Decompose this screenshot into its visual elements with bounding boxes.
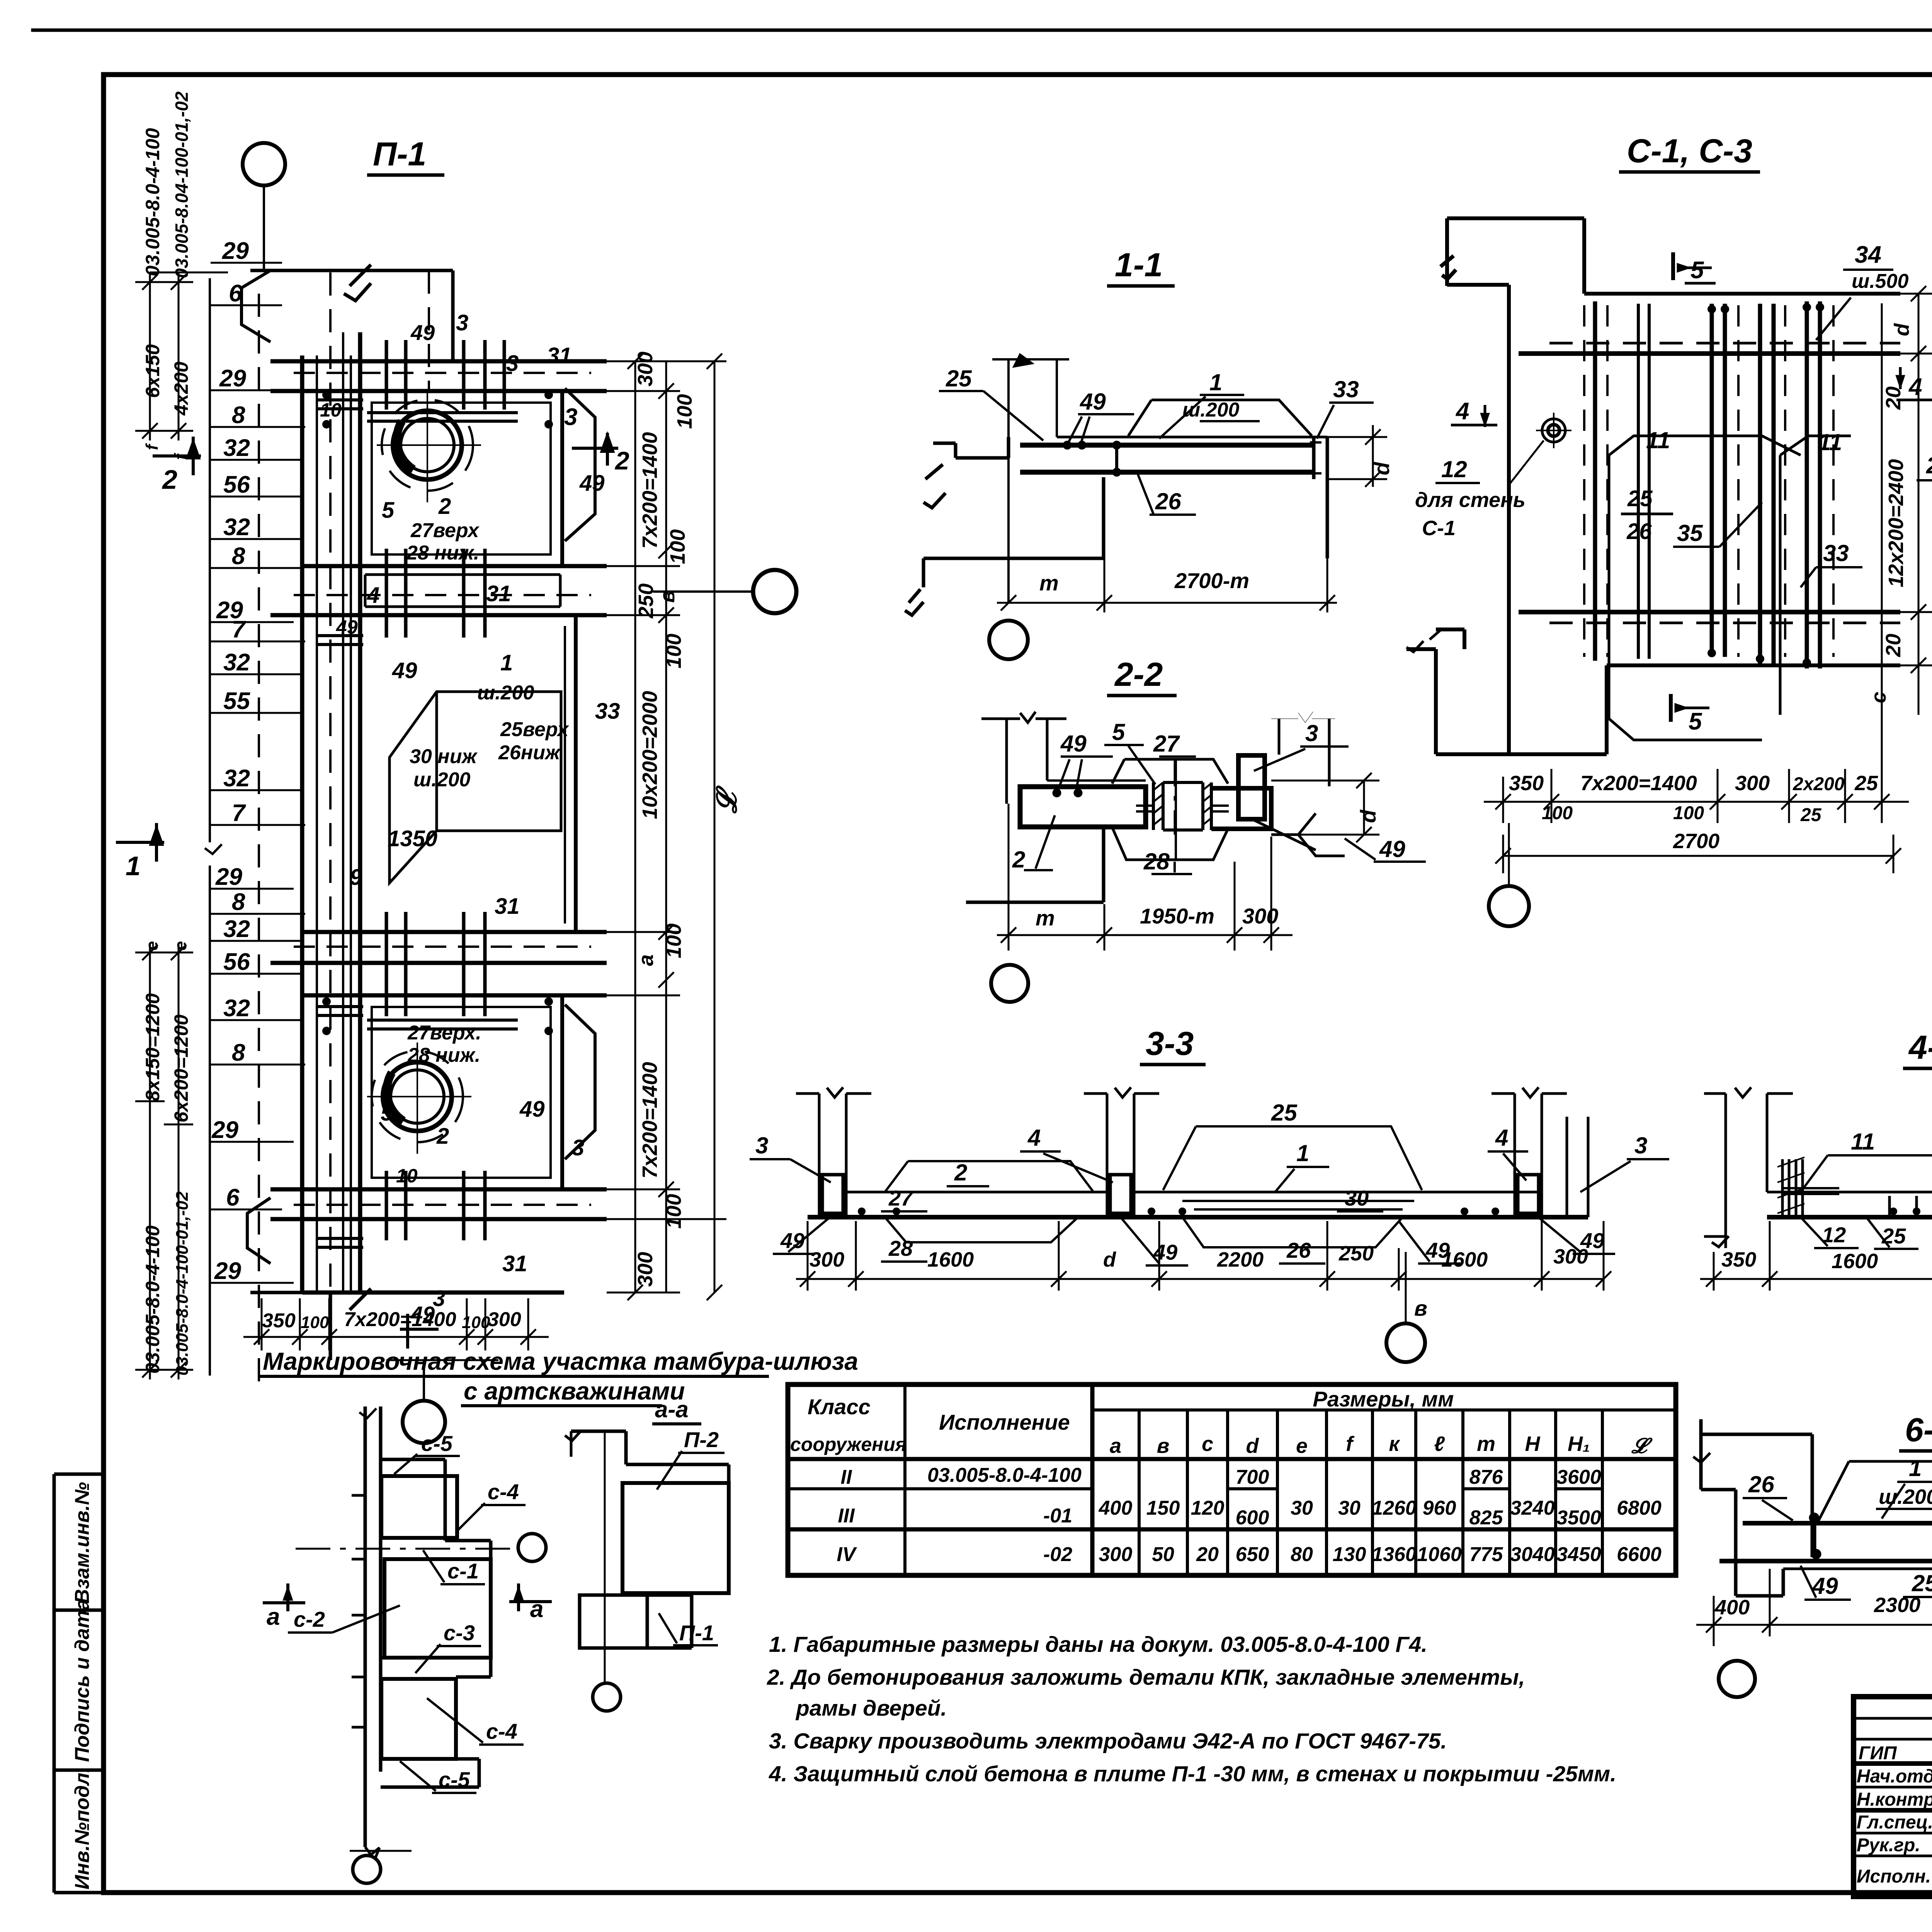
- svg-text:е: е: [1296, 1434, 1308, 1458]
- svg-text:27верх.: 27верх.: [407, 1022, 481, 1044]
- svg-text:e: e: [143, 941, 162, 951]
- svg-text:03.005-8.0-4-100: 03.005-8.0-4-100: [927, 1464, 1082, 1486]
- trapezoid 2: [885, 1161, 1094, 1192]
- svg-text:55: 55: [223, 688, 250, 714]
- bottom dim chain: [796, 1221, 1611, 1291]
- left rotated doc ladder bottom: [135, 943, 193, 1379]
- svg-text:32: 32: [223, 649, 250, 676]
- svg-text:1360: 1360: [1372, 1543, 1417, 1566]
- svg-text:100: 100: [662, 923, 685, 958]
- left wall outline: [1693, 1419, 1812, 1596]
- slab band bottom: [270, 1189, 607, 1293]
- svg-text:35: 35: [1677, 520, 1703, 546]
- svg-text:3: 3: [1305, 720, 1318, 746]
- svg-text:Н.контр: Н.контр: [1857, 1789, 1932, 1810]
- svg-text:а-а: а-а: [655, 1396, 689, 1422]
- svg-text:300: 300: [1735, 772, 1770, 795]
- svg-text:2300: 2300: [1874, 1594, 1920, 1617]
- bottom dim chain: [1484, 769, 1909, 873]
- svg-text:49: 49: [410, 320, 435, 345]
- a-a markers: [263, 1583, 305, 1611]
- svg-text:300: 300: [634, 352, 657, 386]
- svg-text:26: 26: [1748, 1471, 1774, 1497]
- section marker 2 up: [153, 437, 201, 475]
- svg-text:2х200: 2х200: [1793, 774, 1845, 794]
- svg-text:6800: 6800: [1617, 1497, 1662, 1519]
- svg-text:32: 32: [223, 765, 250, 792]
- svg-text:1. Габаритные размеры даны на: 1. Габаритные размеры даны на докум. 03.…: [769, 1632, 1427, 1657]
- svg-text:32: 32: [223, 435, 250, 461]
- slab plate 1 trapezoid in room2: [389, 692, 561, 883]
- labels: [755, 1100, 1647, 1264]
- wall below: [966, 829, 1104, 902]
- svg-text:c: c: [1867, 692, 1890, 703]
- svg-text:IV: IV: [837, 1543, 857, 1566]
- svg-text:650: 650: [1236, 1543, 1269, 1566]
- wall outline bottom-left step: [1406, 629, 1900, 754]
- right dimension labels (rotated): [634, 352, 742, 1287]
- svg-text:Рук.гр.: Рук.гр.: [1857, 1835, 1920, 1855]
- ticks on wall: [352, 1495, 365, 1727]
- node circle below: [1386, 1252, 1425, 1362]
- П-1 lower box: [580, 1593, 692, 1648]
- svg-text:100: 100: [666, 529, 689, 564]
- svg-text:3240: 3240: [1510, 1497, 1555, 1519]
- svg-text:e: e: [171, 941, 190, 951]
- svg-text:а: а: [267, 1604, 280, 1630]
- svg-text:20: 20: [1196, 1543, 1219, 1566]
- slab plate: [1719, 1461, 1932, 1575]
- svg-text:100: 100: [1673, 803, 1704, 823]
- svg-text:а: а: [1110, 1434, 1121, 1458]
- svg-text:1600: 1600: [1441, 1248, 1488, 1271]
- svg-text:Н₁: Н₁: [1568, 1432, 1590, 1456]
- trapezoid 28: [1113, 829, 1228, 860]
- inner labels room1: [320, 310, 605, 608]
- svg-text:49: 49: [519, 1097, 545, 1122]
- svg-text:350: 350: [1509, 772, 1544, 795]
- svg-text:m: m: [1039, 571, 1059, 595]
- svg-text:для стень: для стень: [1415, 488, 1526, 512]
- svg-text:3600: 3600: [1556, 1466, 1601, 1488]
- step c-3: [381, 1658, 491, 1677]
- bottom section mark 3: [400, 1314, 439, 1349]
- svg-text:8: 8: [232, 889, 245, 915]
- П-2 box: [622, 1464, 729, 1593]
- svg-text:d: d: [1369, 461, 1394, 475]
- label 34 ш.500: [1852, 241, 1909, 293]
- label 25/26 fraction: [1626, 486, 1653, 544]
- horizontal rebar pairs in rooms: [317, 400, 518, 1247]
- labels: [1012, 719, 1405, 874]
- trapezoid 27: [1112, 759, 1228, 784]
- svg-text:25: 25: [1854, 772, 1878, 795]
- svg-text:3: 3: [506, 351, 519, 376]
- svg-text:с-1: с-1: [447, 1559, 479, 1583]
- svg-text:к: к: [1389, 1432, 1400, 1456]
- svg-text:1: 1: [1209, 369, 1222, 395]
- svg-text:30: 30: [1345, 1186, 1369, 1210]
- svg-text:12: 12: [1441, 456, 1467, 482]
- svg-text:-02: -02: [1043, 1543, 1072, 1566]
- c-5 top step: [381, 1459, 445, 1541]
- svg-text:II: II: [841, 1466, 852, 1488]
- svg-text:29: 29: [222, 238, 249, 264]
- svg-text:350: 350: [262, 1310, 296, 1332]
- svg-text:1950-m: 1950-m: [1140, 904, 1214, 928]
- svg-text:100: 100: [662, 1194, 685, 1229]
- svg-text:250: 250: [1338, 1242, 1374, 1265]
- svg-text:2. До бетонирования заложить: 2. До бетонирования заложить детали КПК,…: [767, 1665, 1525, 1690]
- svg-text:8х150=1200: 8х150=1200: [142, 993, 163, 1101]
- bottom node circle: [353, 1855, 381, 1883]
- svg-text:33: 33: [1823, 540, 1849, 566]
- svg-text:300: 300: [1242, 904, 1278, 928]
- svg-text:34: 34: [1855, 241, 1881, 268]
- svg-text:2: 2: [162, 464, 177, 495]
- svg-text:6: 6: [226, 1184, 240, 1211]
- section marker 5 bottom: [1671, 694, 1709, 722]
- svg-text:31: 31: [486, 581, 511, 606]
- svg-text:2: 2: [438, 494, 451, 519]
- svg-text:100: 100: [662, 634, 685, 668]
- svg-text:33: 33: [1333, 376, 1359, 402]
- outline: [565, 1431, 649, 1464]
- svg-text:ш.200: ш.200: [413, 769, 471, 791]
- svg-text:600: 600: [1236, 1507, 1269, 1529]
- bottom node circle: [1489, 823, 1529, 926]
- svg-text:2: 2: [436, 1124, 449, 1149]
- trapezoid 26: [1182, 1217, 1403, 1247]
- svg-text:350: 350: [1721, 1248, 1756, 1271]
- svg-text:1060: 1060: [1417, 1543, 1462, 1566]
- svg-text:ш.500: ш.500: [1852, 270, 1909, 293]
- bottom dimension chain: [243, 1298, 549, 1350]
- svg-text:300: 300: [634, 1252, 657, 1287]
- labels: [946, 366, 1359, 514]
- svg-text:300: 300: [488, 1308, 521, 1331]
- svg-text:25: 25: [1912, 1570, 1932, 1596]
- svg-text:ℓ: ℓ: [1434, 1432, 1445, 1456]
- svg-text:d: d: [1356, 809, 1380, 823]
- svg-text:29: 29: [211, 1117, 238, 1143]
- svg-text:ш.200: ш.200: [1879, 1485, 1932, 1509]
- vertical rebars right: [1889, 1132, 1932, 1217]
- left label ladder leaders: [211, 263, 305, 1283]
- svg-text:25: 25: [1926, 452, 1932, 478]
- hex callout right of room3: [565, 1005, 595, 1159]
- svg-text:5: 5: [381, 1100, 393, 1126]
- element 3: [1238, 712, 1335, 819]
- svg-text:11: 11: [1646, 427, 1670, 453]
- svg-text:11: 11: [1851, 1129, 1875, 1155]
- c-4 box top: [381, 1476, 457, 1538]
- svg-text:3: 3: [755, 1133, 768, 1158]
- node circle: [991, 965, 1028, 1002]
- section marker 1 up: [116, 823, 164, 862]
- svg-text:10х200=2000: 10х200=2000: [638, 691, 662, 819]
- svg-text:в: в: [1157, 1434, 1170, 1458]
- svg-text:25: 25: [946, 366, 972, 391]
- svg-text:29: 29: [215, 864, 242, 890]
- hexagon outline near label 6 top: [241, 270, 270, 1264]
- svg-text:Н: Н: [1525, 1432, 1541, 1456]
- svg-text:400: 400: [1099, 1497, 1133, 1519]
- d dim right: [1327, 425, 1387, 487]
- svg-text:4: 4: [1908, 374, 1922, 400]
- svg-text:20: 20: [1882, 386, 1905, 410]
- svg-text:9: 9: [350, 865, 362, 890]
- svg-text:7х200=1400: 7х200=1400: [638, 432, 662, 549]
- room 3 lower well room: [360, 995, 562, 1189]
- svg-text:30 ниж: 30 ниж: [410, 745, 478, 768]
- left labels: [211, 238, 250, 1284]
- hex callout right of room1: [565, 388, 595, 541]
- svg-text:6-6: 6-6: [1905, 1412, 1932, 1449]
- dowel target circle: [1509, 413, 1571, 485]
- wall outline top-left: [1440, 218, 1900, 754]
- bottom node circle: [386, 1360, 498, 1443]
- svg-text:ГИП: ГИП: [1859, 1743, 1897, 1764]
- bottom edge outline: [250, 1289, 371, 1360]
- trapezoid 25: [1163, 1126, 1422, 1190]
- svg-text:Исполнение: Исполнение: [939, 1410, 1070, 1434]
- svg-text:сооружения: сооружения: [790, 1434, 906, 1455]
- svg-text:7: 7: [232, 616, 246, 643]
- label 12 для стень С-1: [1415, 456, 1526, 540]
- svg-text:3. Сварку производить электрод: 3. Сварку производить электродами Э42-А …: [769, 1729, 1447, 1753]
- svg-text:32: 32: [223, 995, 250, 1022]
- svg-text:m: m: [1477, 1432, 1495, 1456]
- svg-text:с-2: с-2: [294, 1607, 325, 1631]
- svg-text:3-3: 3-3: [1146, 1025, 1194, 1062]
- node circle callout top: [243, 143, 285, 270]
- c-5 bottom step: [350, 1759, 479, 1859]
- svg-text:с-5: с-5: [439, 1767, 470, 1792]
- svg-text:с артскважинами: с артскважинами: [464, 1377, 685, 1405]
- svg-text:03.005-8.04-100-01,-02: 03.005-8.04-100-01,-02: [172, 91, 192, 278]
- post 3 left: [796, 1087, 871, 1217]
- svg-text:1350: 1350: [388, 826, 437, 851]
- room 2 big: [360, 615, 576, 932]
- left existing wall outline: [905, 437, 1104, 615]
- svg-text:3: 3: [1634, 1133, 1647, 1158]
- svg-text:П-1: П-1: [373, 136, 426, 173]
- svg-text:4: 4: [367, 583, 379, 608]
- c-2 box: [384, 1559, 491, 1658]
- svg-text:2: 2: [954, 1160, 967, 1185]
- labels: [1748, 1455, 1932, 1600]
- svg-text:1: 1: [500, 650, 513, 675]
- svg-text:a: a: [634, 954, 658, 966]
- room 1 upper well room: [360, 391, 562, 566]
- svg-text:3: 3: [572, 1135, 584, 1160]
- svg-text:300: 300: [1553, 1245, 1588, 1268]
- artesian well circle 1: [377, 391, 481, 502]
- svg-text:31: 31: [495, 894, 520, 919]
- svg-text:825: 825: [1469, 1507, 1503, 1529]
- svg-text:С-1, С-3: С-1, С-3: [1627, 133, 1752, 170]
- svg-text:Подпись и дата: Подпись и дата: [71, 1599, 94, 1762]
- svg-text:1: 1: [1909, 1455, 1922, 1481]
- node circle: [1714, 1627, 1755, 1697]
- section marker 5 top: [1673, 252, 1712, 280]
- svg-text:а: а: [530, 1596, 543, 1622]
- svg-text:2: 2: [1012, 847, 1025, 872]
- d dim right: [1271, 773, 1379, 842]
- bottom dims: [1700, 1221, 1932, 1291]
- artesian well circle 2: [367, 1043, 471, 1154]
- svg-text:1: 1: [1296, 1140, 1309, 1166]
- svg-text:6х200=1200: 6х200=1200: [170, 1014, 192, 1122]
- labels: [294, 1431, 519, 1792]
- svg-text:с-3: с-3: [444, 1621, 475, 1645]
- svg-text:6600: 6600: [1617, 1543, 1662, 1566]
- svg-text:11: 11: [1818, 429, 1842, 455]
- svg-text:Маркировочная схема участка та: Маркировочная схема участка тамбура-шлюз…: [263, 1347, 858, 1375]
- svg-text:1600: 1600: [927, 1248, 974, 1271]
- svg-text:26: 26: [1286, 1238, 1311, 1262]
- hatched joints and middle block: [1136, 759, 1229, 835]
- svg-text:Взам.инв.№: Взам.инв.№: [71, 1482, 94, 1604]
- svg-text:3500: 3500: [1556, 1507, 1601, 1529]
- svg-text:d: d: [1246, 1434, 1259, 1458]
- svg-text:775: 775: [1469, 1543, 1503, 1566]
- svg-text:33: 33: [595, 699, 620, 724]
- svg-text:Класс: Класс: [808, 1395, 871, 1419]
- slab band 1: [270, 361, 607, 391]
- rebar verticals crossing slab bands: [386, 340, 504, 1240]
- svg-text:ш.200: ш.200: [477, 682, 534, 704]
- wall pair: [359, 1406, 381, 1847]
- c-4 box bottom: [381, 1679, 456, 1759]
- svg-text:56: 56: [223, 471, 250, 498]
- hatched anchor 12: [1777, 1157, 1839, 1217]
- labels 11: [1646, 427, 1842, 455]
- svg-text:8: 8: [232, 402, 245, 429]
- svg-text:П-1: П-1: [679, 1621, 714, 1645]
- svg-text:25: 25: [1271, 1100, 1298, 1126]
- svg-text:4х200: 4х200: [170, 362, 192, 416]
- svg-text:80: 80: [1291, 1543, 1313, 1566]
- section marker 4 down (left): [1451, 405, 1497, 427]
- svg-text:7х200=1400: 7х200=1400: [638, 1062, 662, 1179]
- svg-text:49: 49: [392, 658, 417, 683]
- bottom dims: [997, 804, 1293, 951]
- svg-text:28: 28: [1143, 849, 1170, 874]
- svg-text:150: 150: [1146, 1497, 1180, 1519]
- svg-text:2-2: 2-2: [1114, 656, 1163, 693]
- node circle: [989, 621, 1028, 659]
- svg-text:5: 5: [1690, 257, 1704, 284]
- left margin stamp column: [54, 1474, 104, 1893]
- svg-text:d: d: [1890, 323, 1913, 336]
- svg-text:С-1: С-1: [1422, 517, 1456, 540]
- svg-text:-01: -01: [1043, 1505, 1072, 1527]
- svg-text:03.005-8.0-4-100-01,-02: 03.005-8.0-4-100-01,-02: [173, 1191, 192, 1376]
- svg-text:100: 100: [1542, 803, 1573, 823]
- centerline + circle: [593, 1430, 621, 1711]
- svg-text:2200: 2200: [1217, 1248, 1264, 1271]
- svg-text:с: с: [1202, 1432, 1213, 1456]
- svg-text:56: 56: [223, 949, 250, 975]
- slab element left: [1020, 781, 1146, 827]
- svg-text:5: 5: [1689, 708, 1702, 735]
- m mark verticals: [992, 355, 1069, 603]
- svg-text:с-4: с-4: [488, 1480, 519, 1504]
- svg-text:32: 32: [223, 514, 250, 541]
- svg-text:3450: 3450: [1556, 1543, 1601, 1566]
- right dim ladder: [1847, 286, 1932, 802]
- slab band 2: [270, 566, 607, 615]
- svg-text:29: 29: [214, 1258, 241, 1284]
- posts right pair: [1492, 1087, 1588, 1217]
- svg-text:4: 4: [1495, 1125, 1508, 1151]
- svg-text:5: 5: [1112, 719, 1126, 745]
- svg-text:1600: 1600: [1832, 1250, 1878, 1273]
- svg-text:700: 700: [1236, 1466, 1269, 1488]
- svg-text:7х200=1400: 7х200=1400: [344, 1308, 456, 1331]
- inner plate 30: [1182, 1201, 1414, 1209]
- svg-text:27верх: 27верх: [410, 519, 480, 542]
- svg-text:28 ниж.: 28 ниж.: [406, 542, 479, 564]
- svg-text:03.005-8.0-4-100: 03.005-8.0-4-100: [142, 128, 163, 276]
- plate 11 outlines: [1609, 436, 1851, 740]
- svg-text:876: 876: [1469, 1466, 1503, 1488]
- svg-text:Гл.спец.: Гл.спец.: [1857, 1812, 1932, 1833]
- svg-text:Исполн.: Исполн.: [1857, 1866, 1931, 1887]
- svg-text:400: 400: [1714, 1596, 1750, 1619]
- left break wall: [981, 712, 1066, 804]
- svg-text:20: 20: [1882, 634, 1905, 657]
- svg-text:25: 25: [1800, 805, 1822, 825]
- svg-text:2: 2: [614, 446, 629, 475]
- svg-text:28 ниж.: 28 ниж.: [407, 1044, 480, 1066]
- post 4 middle: [1084, 1087, 1159, 1217]
- svg-text:28: 28: [888, 1236, 913, 1260]
- svg-text:2700-m: 2700-m: [1174, 568, 1249, 593]
- svg-text:30: 30: [1338, 1497, 1361, 1519]
- svg-text:4-4: 4-4: [1908, 1029, 1932, 1066]
- svg-text:32: 32: [223, 916, 250, 942]
- svg-text:25: 25: [1881, 1224, 1906, 1248]
- svg-text:рамы дверей.: рамы дверей.: [795, 1696, 947, 1721]
- marker 3^2: [572, 433, 618, 466]
- labels: [1822, 1065, 1932, 1302]
- svg-text:300: 300: [810, 1248, 844, 1271]
- svg-text:1: 1: [126, 851, 141, 881]
- svg-text:4. Защитный слой бетона в плит: 4. Защитный слой бетона в плите П-1 -30 …: [769, 1762, 1616, 1786]
- svg-text:960: 960: [1423, 1497, 1456, 1519]
- svg-text:6х150: 6х150: [142, 344, 163, 398]
- svg-text:m: m: [1036, 906, 1055, 930]
- svg-text:7: 7: [232, 800, 246, 827]
- right bracket 49: [1252, 813, 1345, 856]
- svg-text:4: 4: [1455, 398, 1469, 425]
- trapezoid 11: [1801, 1155, 1932, 1192]
- svg-text:130: 130: [1333, 1543, 1366, 1566]
- svg-text:12х200=2400: 12х200=2400: [1884, 459, 1908, 587]
- small anchor dots: [322, 391, 553, 1035]
- svg-text:5: 5: [382, 498, 395, 523]
- bottom dims: [1696, 1569, 1932, 1636]
- left rotated doc ladder top: [135, 272, 228, 440]
- svg-text:8: 8: [232, 1039, 245, 1066]
- labels: [679, 1427, 719, 1645]
- svg-text:Нач.отд.: Нач.отд.: [1857, 1766, 1932, 1787]
- svg-text:29: 29: [219, 365, 246, 392]
- inner labels room2: [336, 616, 620, 919]
